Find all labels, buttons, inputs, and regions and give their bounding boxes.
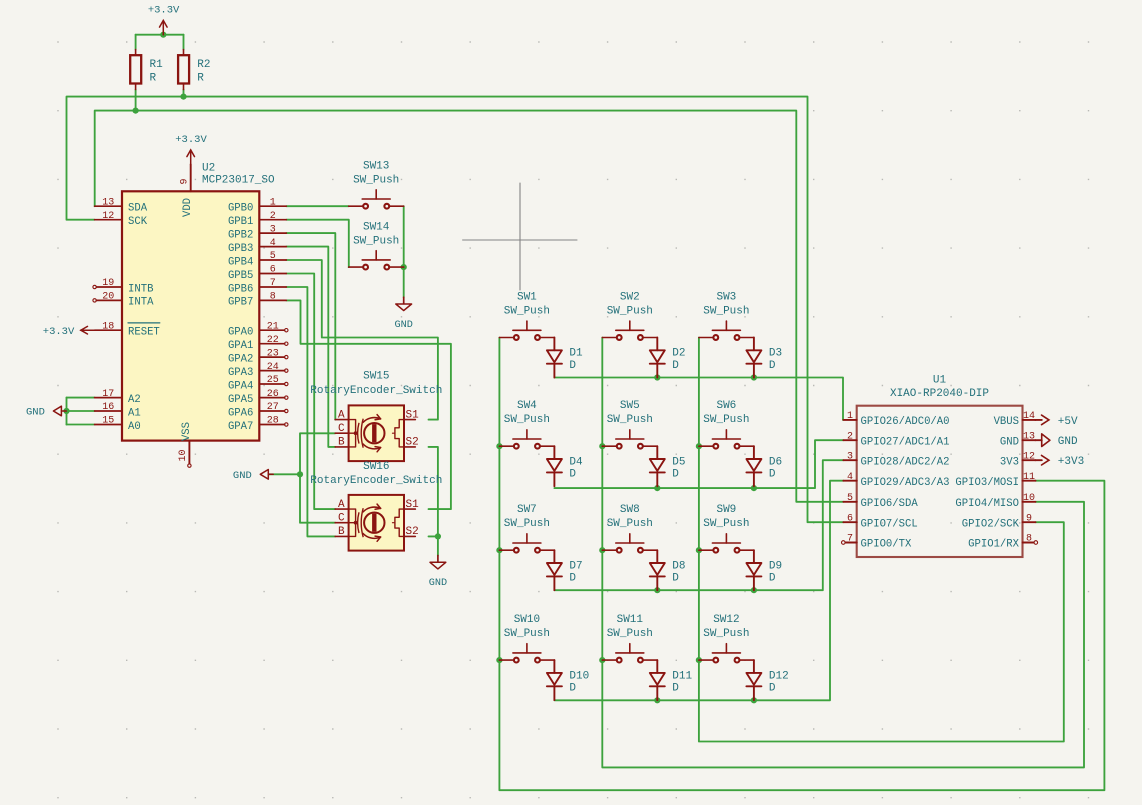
svg-text:3: 3 [847,451,853,462]
diode D2 [650,338,686,378]
diode D1 [547,338,583,378]
svg-text:INTB: INTB [128,283,153,295]
U2 pin 12 SCK [95,211,148,228]
svg-text:SW_Push: SW_Push [607,628,653,640]
U1 pin 12 3V3 [1000,451,1036,468]
svg-text:13: 13 [1023,431,1035,442]
wire GPB6 to SW16 pin B [286,287,335,536]
svg-text:13: 13 [102,197,114,208]
U1 pin 1 GPIO26/ADC0/A0 [843,411,949,428]
switch SW9 SW_Push [699,504,754,553]
svg-text:GPA1: GPA1 [228,340,253,352]
svg-text:1: 1 [270,197,276,208]
wire GPB3 to SW15 pin B [286,247,335,447]
U2 pin 6 GPB5 [228,265,286,282]
svg-text:GPA7: GPA7 [228,421,253,433]
svg-text:D2: D2 [672,348,685,360]
svg-text:C: C [338,423,345,435]
svg-text:D8: D8 [672,560,685,572]
svg-text:21: 21 [267,321,279,332]
diode D9 [746,550,782,590]
U1 pin 6 GPIO7/SCL [843,513,917,530]
svg-text:D: D [569,573,576,585]
U2 pin 18 RESET [95,321,160,338]
diode D7 [547,550,583,590]
ic U2 MCP23017_SO body [122,162,275,440]
svg-text:GPIO3/MOSI: GPIO3/MOSI [955,477,1019,489]
svg-text:R1: R1 [150,59,164,71]
wire U2 A1 to GND net [67,410,95,412]
U2 pin 2 GPB1 [228,211,286,228]
svg-text:D: D [769,573,776,585]
svg-text:GPA0: GPA0 [228,327,253,339]
U1 pin 13 GND [1000,431,1036,448]
switch SW13 SW_Push [349,160,404,208]
svg-text:SW2: SW2 [620,291,640,303]
wire GPB1 to SW14 [286,220,349,267]
svg-text:D: D [672,682,679,694]
switch SW6 SW_Push [699,400,754,449]
svg-text:SW6: SW6 [716,400,736,412]
svg-text:GND: GND [395,320,413,331]
svg-text:GPA5: GPA5 [228,394,253,406]
junction encoder C GND [297,471,303,477]
U2 pin 21 GPA0 [228,321,288,338]
svg-text:GPIO0/TX: GPIO0/TX [861,539,913,551]
diode D11 [650,660,693,700]
svg-text:GPB2: GPB2 [228,229,253,241]
U2 pin 10 VSS [178,422,193,467]
svg-text:7: 7 [847,534,853,545]
svg-text:D: D [672,573,679,585]
U2 pin 7 GPB6 [228,278,286,295]
junction D2 row1 [654,374,660,380]
svg-text:VSS: VSS [181,422,193,441]
svg-text:D: D [769,360,776,372]
wire matrix column 3 to U1 pin9 GPIO2/SCK [699,338,1064,742]
svg-text:15: 15 [102,416,114,427]
svg-text:7: 7 [270,278,276,289]
U2 pin 5 GPB4 [228,251,286,268]
svg-text:8: 8 [270,292,276,303]
wire net SCK: U2 pin12 to U1 pin6 GPIO7/SCL [67,97,844,523]
wire U2 A0 to GND net [67,424,95,426]
svg-text:D10: D10 [569,670,589,682]
svg-text:SW_Push: SW_Push [504,414,550,426]
power GND at U1 pin13 [1035,434,1078,448]
junction col2 row4 [599,657,605,663]
U1 pin 9 GPIO2/SCK [962,513,1036,530]
svg-text:SW15: SW15 [363,371,389,383]
svg-text:GPA2: GPA2 [228,353,253,365]
svg-text:4: 4 [270,238,276,249]
svg-text:S2: S2 [406,526,419,538]
svg-text:S2: S2 [406,437,419,449]
switch SW10 SW_Push [499,614,554,662]
svg-text:GPIO2/SCK: GPIO2/SCK [962,518,1020,530]
diode D3 [746,338,782,378]
svg-text:5: 5 [847,493,853,504]
wire U2 A2 to GND net [67,397,95,399]
svg-text:S1: S1 [406,409,420,421]
wire R1 bottom to SDA net [135,90,137,111]
switch SW5 SW_Push [602,400,657,449]
svg-text:12: 12 [102,211,114,222]
U2 pin 24 GPA3 [228,362,288,379]
svg-text:SW3: SW3 [716,291,736,303]
svg-text:GPA4: GPA4 [228,380,253,392]
junction col3 row3 [696,547,702,553]
diode D10 [547,660,589,700]
wire GPB2 to SW15 pin A [286,233,335,420]
editor crosshair cursor [463,183,577,290]
svg-text:D: D [569,360,576,372]
svg-text:23: 23 [267,348,279,359]
junction +3.3V [160,32,166,38]
svg-text:SW11: SW11 [617,614,644,626]
svg-text:4: 4 [847,472,853,483]
svg-text:SW10: SW10 [514,614,540,626]
power GND flag at encoder common [233,470,273,482]
wire SW16 S2 stub [429,535,438,537]
svg-text:D11: D11 [672,670,692,682]
svg-text:R2: R2 [197,59,210,71]
resistor R2 [178,50,210,90]
svg-text:SW7: SW7 [517,504,537,516]
wire encoder common C net to GND flag [269,473,300,475]
U2 pin 27 GPA6 [228,402,288,419]
junction D12 row4 [751,697,757,703]
switch SW8 SW_Push [602,504,657,553]
svg-text:SW_Push: SW_Push [504,305,550,317]
svg-text:D: D [569,469,576,481]
diode D4 [547,446,583,486]
svg-text:INTA: INTA [128,297,154,309]
svg-text:8: 8 [1026,534,1032,545]
svg-text:GPA3: GPA3 [228,367,253,379]
U2 pin 15 A0 [95,416,141,433]
U2 pin 16 A1 [95,402,141,419]
switch SW11 SW_Push [602,614,657,662]
svg-text:SW_Push: SW_Push [353,174,399,186]
U1 pin 7 GPIO0/TX [842,534,913,551]
svg-text:14: 14 [1023,411,1035,422]
svg-text:A: A [338,499,345,511]
svg-text:D7: D7 [569,560,582,572]
svg-text:2: 2 [270,211,276,222]
wire matrix column 2 to U1 pin10 GPIO4/MISO [602,338,1084,768]
svg-text:22: 22 [267,335,279,346]
svg-text:RESET: RESET [128,327,160,339]
wire SW15 S2 to SW16 S2 to GND [429,447,438,556]
svg-text:R: R [150,73,157,85]
junction D5 row2 [654,485,660,491]
junction SW14 right [401,264,407,270]
svg-text:XIAO-RP2040-DIP: XIAO-RP2040-DIP [890,388,989,400]
svg-text:GPIO7/SCL: GPIO7/SCL [861,518,918,530]
wire SW15 C to SW16 C [300,433,335,522]
svg-text:D6: D6 [769,456,782,468]
svg-text:GND: GND [26,407,45,419]
svg-text:25: 25 [267,375,279,386]
svg-text:GPA6: GPA6 [228,407,253,419]
switch SW3 SW_Push [699,291,754,340]
svg-text:D9: D9 [769,560,782,572]
svg-text:GPB3: GPB3 [228,243,253,255]
svg-text:MCP23017_SO: MCP23017_SO [202,175,275,187]
svg-text:3V3: 3V3 [1000,456,1019,468]
svg-text:GND: GND [1058,436,1078,448]
svg-text:SW13: SW13 [363,160,389,172]
svg-text:+3.3V: +3.3V [43,326,75,338]
U1 pin 10 GPIO4/MISO [955,493,1035,510]
switch SW12 SW_Push [699,614,754,662]
svg-text:SW_Push: SW_Push [607,414,653,426]
wire GPB7 to SW16 pin S1 [286,300,451,509]
svg-text:D3: D3 [769,348,782,360]
svg-text:A: A [338,409,345,421]
U2 pin 23 GPA2 [228,348,288,365]
power GND flag at U2 A1 [26,406,66,418]
svg-text:SW_Push: SW_Push [703,414,749,426]
svg-text:RotaryEncoder_Switch: RotaryEncoder_Switch [310,475,442,487]
svg-text:+3V3: +3V3 [1058,456,1084,468]
svg-text:24: 24 [267,362,279,373]
svg-text:3: 3 [270,224,276,235]
power +3.3V at U2 RESET [43,326,95,338]
svg-text:D5: D5 [672,456,685,468]
U1 pin 4 GPIO29/ADC3/A3 [843,472,949,489]
svg-text:SW_Push: SW_Push [703,518,749,530]
junction D9 row3 [751,587,757,593]
svg-text:GPB1: GPB1 [228,216,253,228]
svg-text:A2: A2 [128,394,141,406]
U2 pin 26 GPA5 [228,389,288,406]
svg-text:SDA: SDA [128,203,148,215]
junction D8 row3 [654,587,660,593]
svg-text:GPB7: GPB7 [228,297,253,309]
svg-text:GPIO27/ADC1/A1: GPIO27/ADC1/A1 [861,436,950,448]
diode D6 [746,446,782,486]
wire matrix row 3 to U1 pin3 GPIO28 [554,460,843,590]
svg-text:10: 10 [1023,493,1035,504]
U1 pin 11 GPIO3/MOSI [955,472,1035,489]
svg-text:SW_Push: SW_Push [703,305,749,317]
U2 pin 9 VDD [179,164,194,217]
svg-text:19: 19 [102,278,114,289]
diode D12 [746,660,788,700]
power +3.3V top [148,5,180,35]
U2 pin 1 GPB0 [228,197,286,214]
wire matrix row 1 to U1 pin1 GPIO26 [554,378,843,420]
switch SW4 SW_Push [499,400,554,449]
svg-text:5: 5 [270,251,276,262]
svg-text:D: D [769,682,776,694]
switch SW1 SW_Push [499,291,554,340]
svg-text:S1: S1 [406,499,420,511]
svg-text:D: D [569,682,576,694]
svg-text:+3.3V: +3.3V [175,134,207,146]
svg-text:11: 11 [1023,472,1035,483]
svg-text:SW8: SW8 [620,504,640,516]
svg-text:U2: U2 [202,162,215,174]
svg-text:U1: U1 [933,375,947,387]
junction col2 row2 [599,443,605,449]
svg-text:6: 6 [847,513,853,524]
svg-text:B: B [338,437,345,449]
wire matrix row 2 to U1 pin2 GPIO27 [554,440,843,488]
junction GND A1 [63,408,69,414]
junction R2/SCK [180,94,186,100]
svg-text:SW5: SW5 [620,400,640,412]
svg-text:GPIO1/RX: GPIO1/RX [968,539,1020,551]
svg-text:SW_Push: SW_Push [353,235,399,247]
svg-text:16: 16 [102,402,114,413]
junction col3 row2 [696,443,702,449]
wire SW13 to SW14 to GND [403,206,405,297]
svg-text:GPB0: GPB0 [228,203,253,215]
svg-text:D: D [769,469,776,481]
svg-text:26: 26 [267,389,279,400]
svg-text:6: 6 [270,265,276,276]
switch SW2 SW_Push [602,291,657,340]
svg-text:12: 12 [1023,451,1035,462]
svg-text:VBUS: VBUS [994,416,1019,428]
U2 pin 28 GPA7 [228,416,288,433]
junction D6 row2 [751,485,757,491]
wire +3.3V bus above R1 R2 [136,34,184,36]
svg-text:VDD: VDD [182,198,194,217]
svg-text:18: 18 [102,321,114,332]
U2 pin 17 A2 [95,389,141,406]
svg-text:2: 2 [847,431,853,442]
power GND below SW14 [395,297,413,331]
U1 pin 8 GPIO1/RX [968,534,1037,551]
svg-text:D1: D1 [569,348,583,360]
svg-text:SW_Push: SW_Push [504,518,550,530]
svg-text:SW_Push: SW_Push [703,628,749,640]
svg-text:GPIO6/SDA: GPIO6/SDA [861,498,919,510]
junction col3 row4 [696,657,702,663]
svg-text:SW_Push: SW_Push [504,628,550,640]
wire GPB5 to SW16 pin A [286,274,335,510]
rotary encoder SW15 RotaryEncoder_Switch [310,371,442,462]
svg-text:D: D [672,469,679,481]
svg-text:C: C [338,513,345,525]
U1 pin 14 VBUS [994,411,1036,428]
U2 pin 25 GPA4 [228,375,288,392]
svg-text:SW4: SW4 [517,400,537,412]
svg-text:SW9: SW9 [716,504,736,516]
svg-text:20: 20 [102,292,114,303]
svg-text:+5V: +5V [1058,416,1078,428]
junction col1 row3 [496,547,502,553]
svg-text:D: D [672,360,679,372]
module U1 XIAO-RP2040-DIP body [857,375,1023,557]
svg-text:D4: D4 [569,456,583,468]
wire GPB4 to SW15 pin S1 [286,260,438,420]
wire R2 bottom to SCK net [183,90,185,97]
svg-text:R: R [197,73,204,85]
U2 pin 3 GPB2 [228,224,286,241]
switch SW14 SW_Push [349,221,404,269]
svg-text:A1: A1 [128,407,141,419]
svg-text:27: 27 [267,402,279,413]
junction col2 row3 [599,547,605,553]
power +3V3 at U1 3V3 [1035,455,1084,468]
rotary encoder SW16 RotaryEncoder_Switch [310,461,442,551]
diode D5 [650,446,686,486]
svg-text:GND: GND [233,470,252,482]
U1 pin 2 GPIO27/ADC1/A1 [843,431,949,448]
U2 pin 13 SDA [95,197,148,214]
svg-text:GPIO29/ADC3/A3: GPIO29/ADC3/A3 [861,477,950,489]
U2 pin 22 GPA1 [228,335,288,352]
svg-text:GPB6: GPB6 [228,283,253,295]
svg-text:17: 17 [102,389,114,400]
wire GPB0 to SW13 [286,205,348,207]
svg-text:A0: A0 [128,421,141,433]
svg-text:+3.3V: +3.3V [148,5,180,17]
junction R1/SDA [133,108,139,114]
power GND below SW16 S2 [429,556,447,590]
svg-text:B: B [338,526,345,538]
wire R1 top lead [135,35,137,50]
svg-text:GPB4: GPB4 [228,256,253,268]
svg-text:SCK: SCK [128,216,148,228]
U2 pin 8 GPB7 [228,292,286,309]
svg-text:GPIO26/ADC0/A0: GPIO26/ADC0/A0 [861,416,950,428]
switch SW7 SW_Push [499,504,554,553]
svg-text:1: 1 [847,411,853,422]
junction SW16 S2 [435,533,441,539]
svg-text:10: 10 [178,449,189,461]
svg-text:SW_Push: SW_Push [607,305,653,317]
svg-text:SW12: SW12 [713,614,739,626]
svg-text:SW_Push: SW_Push [607,518,653,530]
power +3.3V at U2 VDD [175,134,207,164]
resistor R1 [130,50,163,90]
svg-text:28: 28 [267,416,279,427]
U1 pin 3 GPIO28/ADC2/A2 [843,451,949,468]
svg-text:D12: D12 [769,670,789,682]
wire GND bracket A2-A0 [66,398,68,425]
U1 pin 5 GPIO6/SDA [843,493,918,510]
svg-text:GPIO28/ADC2/A2: GPIO28/ADC2/A2 [861,456,950,468]
svg-text:GPIO4/MISO: GPIO4/MISO [955,498,1019,510]
power +5V at U1 VBUS [1035,415,1078,428]
svg-text:GND: GND [1000,436,1019,448]
junction col1 row2 [496,443,502,449]
wire net SDA: U2 pin13 to U1 pin5 GPIO6/SDA [95,111,844,502]
svg-text:GND: GND [429,578,447,589]
svg-text:9: 9 [179,178,190,184]
junction D3 row1 [751,374,757,380]
diode D8 [650,550,686,590]
wire R2 top lead [183,35,185,50]
U2 pin 4 GPB3 [228,238,286,255]
wire matrix column 1 to U1 pin11 GPIO3/MOSI [499,338,1104,791]
junction col1 row4 [496,657,502,663]
junction D11 row4 [654,697,660,703]
svg-text:SW16: SW16 [363,461,389,473]
svg-text:9: 9 [1026,513,1032,524]
U2 pin 20 INTA [93,292,154,309]
svg-text:SW14: SW14 [363,221,390,233]
U2 pin 19 INTB [93,278,154,295]
svg-text:RotaryEncoder_Switch: RotaryEncoder_Switch [310,385,442,397]
wire matrix row 4 to U1 pin4 GPIO29 [554,481,843,701]
